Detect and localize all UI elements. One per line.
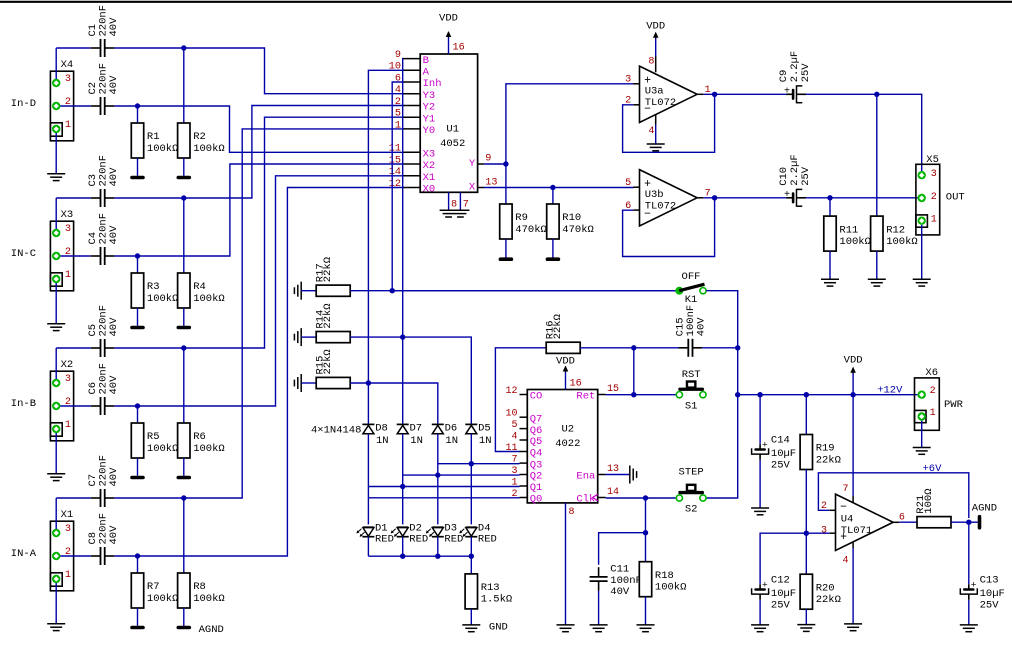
wire X4 pin1 to ground	[55, 133, 57, 174]
svg-text:14: 14	[389, 167, 401, 178]
svg-text:2.2µF: 2.2µF	[789, 51, 801, 83]
svg-text:+: +	[762, 440, 768, 451]
svg-text:+: +	[762, 580, 768, 591]
AGND bar under R5	[130, 476, 145, 480]
svg-text:22kΩ: 22kΩ	[322, 349, 334, 374]
svg-text:AGND: AGND	[972, 502, 997, 514]
svg-text:Q6: Q6	[530, 425, 543, 437]
svg-text:U4: U4	[841, 513, 854, 525]
junction D5/Q3	[469, 461, 474, 466]
svg-text:X3: X3	[423, 149, 436, 161]
svg-text:13: 13	[607, 464, 619, 475]
connector X1 pin 2	[52, 547, 71, 560]
resistor R14 22k	[301, 303, 350, 342]
ground under R20	[797, 625, 815, 632]
wire +12V row S1 to X6	[738, 394, 918, 396]
svg-text:RED: RED	[409, 533, 428, 545]
svg-text:In-B: In-B	[11, 398, 36, 410]
wire D4 cathode down	[470, 537, 472, 556]
wire X5 pin1 to ground	[921, 225, 923, 279]
junction U3a out	[712, 92, 717, 97]
diode D5 1N4148	[465, 423, 491, 447]
ground right of Ena	[630, 466, 637, 484]
ground under X2	[47, 474, 65, 481]
wire C11 row	[599, 533, 646, 565]
svg-text:+: +	[971, 580, 977, 591]
AGND bar under R3	[130, 326, 145, 330]
svg-text:Clk: Clk	[576, 494, 595, 506]
capacitor C7 220nF	[87, 455, 120, 507]
svg-text:14: 14	[607, 487, 619, 498]
svg-text:Q2: Q2	[530, 471, 543, 483]
U2 pin 15 Ret	[576, 384, 619, 403]
resistor R15 22k	[301, 349, 350, 388]
junction on C1 line	[181, 45, 186, 50]
U1 pin 7 wire	[460, 192, 469, 210]
pushbutton S1 RST	[676, 369, 706, 412]
wire In-B pin3 net to U1 Y1	[56, 117, 403, 348]
ground under R12	[868, 279, 886, 286]
svg-text:TL072: TL072	[645, 201, 677, 213]
wire riser R16/Ret	[633, 348, 635, 395]
U1 pin 10 A	[389, 62, 430, 79]
capacitor C8 220nF	[87, 513, 120, 565]
U2 pin 12 CO	[505, 386, 542, 403]
resistor R21 100ohm	[899, 488, 969, 527]
connector X6 pin 2	[918, 386, 936, 399]
ground under U1 pin 7	[451, 210, 469, 217]
svg-text:40V: 40V	[108, 317, 120, 337]
junction rail S1 row	[735, 392, 740, 397]
op-amp U4 TL071	[829, 494, 899, 550]
svg-text:4: 4	[511, 431, 517, 442]
svg-text:PWR: PWR	[944, 399, 964, 411]
label PWR	[944, 399, 964, 411]
junction R19/R20/pin3	[804, 531, 809, 536]
svg-text:+12V: +12V	[877, 385, 903, 397]
wire D6 anode down	[437, 434, 439, 525]
svg-text:U2: U2	[561, 424, 574, 436]
IC U2 4022 body	[527, 390, 597, 503]
svg-text:100nF: 100nF	[610, 575, 642, 587]
U1 pin 2 Y2	[395, 97, 435, 114]
connector X1 body	[50, 509, 73, 591]
svg-text:R9: R9	[515, 212, 528, 224]
junction R19 top	[804, 392, 809, 397]
svg-text:2: 2	[931, 192, 937, 203]
AGND bar under R1	[130, 176, 145, 180]
svg-text:8: 8	[648, 56, 654, 67]
svg-text:D7: D7	[410, 423, 423, 435]
svg-text:22kΩ: 22kΩ	[322, 257, 334, 282]
svg-text:4052: 4052	[440, 138, 465, 150]
junction on C8 line	[135, 553, 140, 558]
schematic frame top edge	[0, 1, 1012, 3]
junction Clk/R18 riser	[643, 495, 648, 500]
wire U3b feedback	[623, 198, 715, 257]
wire X3 pin1 to ground	[55, 283, 57, 324]
svg-text:U3a: U3a	[645, 85, 664, 97]
capacitor C13 10uF	[960, 522, 1005, 625]
capacitor C1 220nF	[87, 5, 120, 57]
junction Inh/R17	[390, 288, 395, 293]
U2 pin 11 Q4	[505, 443, 542, 460]
wire In-A pin2 net to U1 X0	[60, 188, 403, 557]
svg-text:100kΩ: 100kΩ	[193, 143, 225, 155]
svg-text:+: +	[784, 190, 790, 201]
svg-text:4: 4	[648, 126, 654, 137]
svg-text:X4: X4	[61, 59, 74, 71]
svg-text:1N: 1N	[376, 435, 389, 447]
label In-D	[11, 98, 36, 110]
svg-text:15: 15	[389, 155, 401, 166]
svg-text:5: 5	[395, 109, 401, 120]
AGND bar under R6	[177, 476, 192, 480]
connector X2 body	[50, 359, 73, 441]
svg-text:22kΩ: 22kΩ	[816, 454, 841, 466]
ground under U3a	[647, 144, 665, 151]
svg-text:10: 10	[505, 409, 517, 420]
resistor R16 22k	[544, 314, 580, 353]
svg-text:RST: RST	[682, 369, 701, 381]
capacitor C15 100nF	[675, 305, 708, 357]
wire X3 pin3 riser	[55, 198, 57, 229]
junction VDD riser	[850, 392, 855, 397]
junction R21/C13/AGND	[966, 520, 971, 525]
svg-text:R1: R1	[147, 131, 160, 143]
capacitor C3 220nF	[87, 155, 120, 207]
svg-text:1: 1	[65, 570, 71, 581]
wire rail to S2 right	[706, 395, 738, 498]
wire X4 pin3 riser	[55, 48, 57, 79]
svg-text:9: 9	[395, 50, 401, 61]
svg-text:Q0: Q0	[530, 494, 543, 506]
U1 pin 6 Inh	[395, 73, 442, 90]
ground left of R15	[294, 374, 301, 392]
resistor R1 100k	[131, 106, 178, 176]
svg-text:K1: K1	[685, 294, 698, 306]
svg-text:100Ω: 100Ω	[923, 488, 935, 513]
connector X6 pin 1	[918, 408, 936, 421]
connector X5 pin 2	[918, 192, 937, 203]
svg-text:Y3: Y3	[423, 90, 436, 102]
junction X/R10	[550, 185, 555, 190]
U1 pin 4 Y3	[395, 85, 435, 102]
svg-text:Y2: Y2	[423, 102, 436, 114]
svg-text:OFF: OFF	[682, 271, 701, 283]
wire In-D pin3 net to U1 Y3	[56, 48, 403, 94]
resistor R18 100k	[639, 562, 686, 625]
resistor R19 22k	[800, 395, 841, 534]
wire D1 cathode down	[367, 537, 369, 556]
svg-text:3: 3	[65, 524, 71, 535]
svg-text:Q4: Q4	[530, 448, 543, 460]
ground left of R17	[294, 282, 301, 300]
wire X2 pin1 to ground	[55, 433, 57, 474]
svg-text:2.2µF: 2.2µF	[789, 154, 801, 186]
junction C11 row	[643, 530, 648, 535]
label +12V	[877, 385, 903, 397]
wire D2 cathode down	[402, 537, 404, 556]
svg-text:1: 1	[931, 215, 937, 226]
svg-text:10: 10	[389, 62, 401, 73]
svg-text:U3b: U3b	[645, 189, 664, 201]
svg-text:D5: D5	[478, 423, 491, 435]
junction on C2 line	[135, 103, 140, 108]
svg-text:B: B	[423, 55, 429, 67]
svg-text:Y1: Y1	[423, 113, 436, 125]
svg-text:40V: 40V	[108, 375, 120, 395]
connector X4 pin 3	[52, 74, 71, 87]
label AGND right	[972, 502, 997, 514]
svg-text:12: 12	[505, 386, 517, 397]
connector X5 pin 3	[918, 169, 937, 180]
wire U1 Inh to R17 row	[392, 82, 403, 291]
svg-text:1: 1	[65, 270, 71, 281]
U4 pin numbers	[821, 484, 905, 566]
svg-text:X6: X6	[925, 367, 938, 379]
svg-text:R2: R2	[193, 131, 206, 143]
wire to AGND bar	[969, 521, 978, 523]
wire C9 to X5 pin3	[806, 94, 922, 171]
wire K1 right to rail	[706, 291, 738, 348]
svg-text:16: 16	[570, 378, 582, 389]
wire Q0 row	[368, 497, 519, 499]
U2 pin 16 VDD	[556, 355, 582, 389]
wire X2 pin3 riser	[55, 348, 57, 379]
op-amp U3b TL072	[633, 170, 703, 226]
junction D6/Q2	[435, 472, 440, 477]
VDD arrow right section	[844, 354, 863, 394]
wire In-B pin2 net to U1 X1	[60, 176, 403, 406]
wire R15 to junction A row to diode D6	[350, 383, 438, 424]
wire In-A pin3 net to U1 Y0	[56, 129, 403, 498]
wire D3 cathode down	[437, 537, 439, 556]
capacitor C11 100nF	[590, 563, 642, 598]
svg-text:RED: RED	[444, 533, 463, 545]
svg-text:Q3: Q3	[530, 459, 543, 471]
svg-text:7: 7	[463, 200, 469, 211]
resistor R17 22k	[301, 257, 350, 296]
resistor R9 470k	[500, 164, 547, 258]
wire U3a output	[703, 93, 786, 95]
wire U1 B to R14 row and diode D7	[402, 59, 404, 425]
U3a pin numbers	[625, 56, 711, 137]
wire Q3 row	[438, 463, 520, 465]
svg-text:C12: C12	[771, 575, 790, 587]
resistor R10 470k	[547, 188, 594, 258]
LED D3 RED	[426, 522, 463, 545]
svg-text:Y: Y	[469, 158, 476, 170]
U2 pin 7 Q3	[511, 455, 542, 472]
wire D5 anode down	[470, 434, 472, 525]
svg-text:OUT: OUT	[946, 191, 965, 203]
resistor R7 100k	[131, 556, 178, 626]
svg-text:R6: R6	[193, 431, 206, 443]
wire X1 pin1 to ground	[55, 583, 57, 624]
svg-text:6: 6	[395, 73, 401, 84]
U1 pin 11 X3	[389, 144, 435, 161]
svg-text:R8: R8	[193, 581, 206, 593]
svg-text:+6V: +6V	[923, 463, 943, 475]
ground under R11	[821, 279, 839, 286]
svg-text:R20: R20	[816, 582, 835, 594]
svg-text:40V: 40V	[108, 525, 120, 545]
wire R16 right	[580, 347, 681, 349]
resistor R12 100k	[871, 94, 918, 279]
ground under X5	[913, 279, 931, 286]
connector X5 pin 1	[918, 215, 937, 226]
svg-text:X1: X1	[423, 172, 436, 184]
junction on C3 line	[181, 195, 186, 200]
resistor R11 100k	[824, 198, 871, 279]
wire C10 to X5 pin2	[806, 197, 918, 199]
connector X4 pin 2	[52, 97, 71, 110]
wire Ret to S1	[606, 394, 676, 396]
svg-text:X: X	[469, 182, 476, 194]
svg-text:RED: RED	[478, 533, 497, 545]
svg-text:R12: R12	[886, 224, 905, 236]
svg-text:4: 4	[842, 556, 848, 567]
svg-text:22kΩ: 22kΩ	[322, 303, 334, 328]
connector X3 pin 1	[52, 270, 71, 283]
connector X4 pin 1	[52, 120, 71, 133]
svg-text:8: 8	[569, 507, 575, 518]
op-amp U3a TL072	[633, 66, 703, 122]
U4 pin 4 ground wire	[852, 542, 854, 624]
wire X6 pin1 to ground	[921, 421, 923, 448]
junction R12 top	[874, 92, 879, 97]
svg-text:VDD: VDD	[646, 20, 665, 32]
svg-text:Inh: Inh	[423, 78, 442, 90]
AGND bar under R7	[130, 626, 145, 630]
ground under U4	[844, 624, 862, 631]
wire Q1 row	[368, 486, 519, 488]
svg-text:22kΩ: 22kΩ	[816, 594, 841, 606]
capacitor C12 10uF	[751, 575, 796, 625]
U2 pin 4 Q5	[511, 431, 542, 448]
U1 pin 8 wire	[449, 192, 458, 210]
svg-text:X3: X3	[61, 209, 74, 221]
svg-text:A: A	[423, 67, 430, 79]
svg-text:1.5kΩ: 1.5kΩ	[481, 594, 513, 606]
svg-text:4×1N4148: 4×1N4148	[311, 425, 361, 437]
wire R17 to junction Inh/K1 row	[350, 290, 679, 292]
svg-text:Q7: Q7	[530, 413, 543, 425]
connector X1 pin 1	[52, 570, 71, 583]
junction Ret row	[631, 392, 636, 397]
svg-text:IN-C: IN-C	[11, 248, 36, 260]
diode D6 1N4148	[432, 423, 458, 447]
svg-text:3: 3	[821, 525, 827, 536]
svg-text:TL072: TL072	[645, 97, 677, 109]
diode D8 1N4148	[362, 423, 388, 447]
wire Q4 to R16	[495, 348, 546, 452]
junction on C5 line	[181, 345, 186, 350]
label OUT	[946, 191, 965, 203]
ground under R13	[462, 625, 480, 632]
svg-text:C13: C13	[980, 575, 999, 587]
U1 pin 15 X2	[389, 155, 435, 172]
connector X4 body	[50, 59, 73, 141]
U1 pin 16 VDD	[439, 12, 465, 54]
wire C11 to ground	[598, 591, 600, 625]
svg-text:100kΩ: 100kΩ	[886, 236, 918, 248]
svg-text:R13: R13	[481, 582, 500, 594]
svg-text:100kΩ: 100kΩ	[147, 443, 179, 455]
svg-text:8: 8	[451, 200, 457, 211]
junction A/R15	[366, 380, 371, 385]
svg-text:100kΩ: 100kΩ	[147, 293, 179, 305]
svg-text:40V: 40V	[610, 586, 630, 598]
wire In-C pin3 net to U1 Y2	[56, 106, 403, 199]
ground under R18	[637, 625, 655, 632]
wire U4 pin3 input	[760, 533, 829, 584]
ground under U1 pin 8	[440, 210, 458, 217]
junction D7/Q1	[400, 484, 405, 489]
svg-text:RED: RED	[375, 533, 394, 545]
svg-text:1: 1	[395, 120, 401, 131]
svg-text:4022: 4022	[555, 438, 580, 450]
svg-text:100kΩ: 100kΩ	[147, 593, 179, 605]
connector X3 body	[50, 209, 73, 291]
wire In-C pin2 net to U1 X2	[60, 164, 403, 256]
svg-text:VDD: VDD	[844, 354, 863, 366]
svg-text:25V: 25V	[800, 63, 812, 83]
svg-text:1N: 1N	[445, 435, 458, 447]
wire D7 anode down	[402, 434, 404, 525]
capacitor C4 220nF	[87, 213, 120, 265]
svg-text:470kΩ: 470kΩ	[562, 224, 594, 236]
U1 pin 13 X output	[469, 178, 498, 194]
capacitor C9 2.2uF	[778, 51, 812, 104]
label GND	[489, 621, 508, 633]
svg-text:100kΩ: 100kΩ	[839, 236, 871, 248]
label +6V	[923, 463, 943, 475]
connector X5 body	[916, 154, 940, 235]
svg-text:470kΩ: 470kΩ	[515, 224, 547, 236]
svg-text:40V: 40V	[108, 167, 120, 187]
wire D8 anode down	[367, 434, 369, 525]
wire Clk to S2	[606, 497, 676, 499]
label In-B	[11, 398, 36, 410]
svg-text:5: 5	[625, 178, 631, 189]
junction on C6 line	[135, 403, 140, 408]
ground under C14	[751, 508, 769, 515]
LED D4 RED	[459, 522, 496, 545]
svg-text:3: 3	[625, 75, 631, 86]
junction D3 bottom	[435, 554, 440, 559]
AGND bar under R10	[546, 257, 561, 261]
svg-text:2: 2	[395, 97, 401, 108]
AGND bar under R8	[177, 626, 192, 630]
svg-text:−: −	[840, 501, 847, 514]
junction C15 left / R16	[631, 345, 636, 350]
junction C14 top	[757, 392, 762, 397]
svg-text:1: 1	[65, 420, 71, 431]
svg-text:Q5: Q5	[530, 436, 543, 448]
svg-text:GND: GND	[489, 621, 508, 633]
svg-text:10µF: 10µF	[980, 588, 1005, 600]
junction Y/R9	[503, 161, 508, 166]
resistor R6 100k	[178, 348, 225, 476]
U2 pin 8 wire	[566, 503, 575, 625]
connector X2 pin 3	[52, 374, 71, 387]
svg-text:16: 16	[453, 43, 465, 54]
svg-text:+: +	[784, 86, 790, 97]
svg-text:5: 5	[511, 420, 517, 431]
svg-text:R10: R10	[562, 212, 581, 224]
